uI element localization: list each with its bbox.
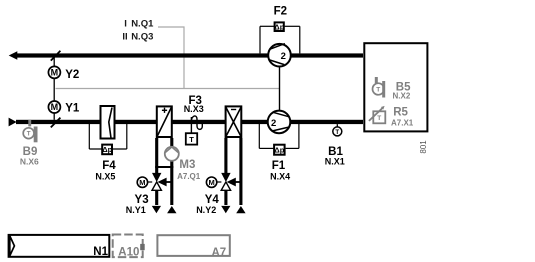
wire: cooler supply pipe [239,138,242,205]
heating coil [157,106,172,137]
actuator Y1 [48,101,60,113]
wire: damper actuator link [53,58,55,67]
svg-text:A7: A7 [211,247,226,259]
svg-text:801: 801 [419,140,428,154]
svg-text:Y4: Y4 [205,194,220,206]
svg-text:N.Y1: N.Y1 [126,205,146,215]
svg-text:N.X2: N.X2 [393,92,411,101]
wire: heater return outlet arrow [152,206,161,213]
room box [364,43,427,131]
svg-text:N.Y2: N.Y2 [196,205,216,215]
svg-text:T: T [376,87,380,94]
wire: control line from speed label to fans/dampers [158,27,184,89]
cooling coil [226,106,242,137]
svg-text:N.X6: N.X6 [20,156,39,166]
actuator Y2 [48,66,60,78]
room unit R5 [369,106,385,123]
svg-text:A7.X1: A7.X1 [391,119,414,128]
wire: horizontal control line damper to fan [56,88,280,90]
svg-text:Y2: Y2 [65,69,79,81]
svg-text:A7.Q1: A7.Q1 [177,172,201,181]
sensor B9 (outside air temp) [23,120,37,143]
wire: bottom duct left arrow [9,118,17,127]
wire: heater supply inlet arrow [167,206,176,213]
device A7 legend box [157,235,229,259]
svg-text:M: M [208,178,214,187]
svg-text:F2: F2 [274,5,287,17]
wire: cooler return pipe [224,138,227,173]
svg-text:M: M [51,102,59,112]
wire: cooler return outlet arrow [221,206,230,213]
svg-text:N.Q3: N.Q3 [131,32,153,43]
svg-text:II: II [122,32,127,43]
svg-text:Δp: Δp [274,22,284,31]
svg-text:T: T [189,135,194,144]
valve Y3 (three-way) [137,173,172,190]
svg-text:2: 2 [281,51,286,62]
wire: fan link line [279,67,281,111]
module A10 legend box [113,235,145,259]
svg-text:R5: R5 [393,107,408,119]
pump M3 [165,147,179,161]
svg-text:F1: F1 [272,160,286,172]
fan F2 pressure switch bracket [260,22,300,53]
svg-text:A10: A10 [118,246,139,258]
svg-text:N.Q1: N.Q1 [131,18,154,29]
svg-text:Y3: Y3 [135,194,149,206]
svg-text:N1: N1 [93,246,108,258]
svg-text:T: T [27,131,31,138]
svg-text:I: I [124,18,127,29]
svg-text:F4: F4 [102,160,116,172]
fan F1 pressure switch bracket [259,124,299,155]
wire: heater pipe crossbar [155,166,173,168]
wire: heater supply pipe [170,138,173,205]
svg-text:Δp: Δp [102,145,112,154]
svg-text:T: T [335,129,339,136]
damper Y1 blade [51,118,61,128]
wire: cooler supply inlet arrow [236,206,245,213]
svg-text:N.X3: N.X3 [184,104,204,114]
wire: bottom duct (supply air) [16,120,363,124]
wire: top duct (exhaust air) [17,53,363,57]
fan F1 [268,111,291,134]
sensor B1 (supply air temp) [333,124,342,136]
svg-text:N.X4: N.X4 [270,172,290,182]
filter F4 [89,106,127,154]
wire: heater return pipe [155,138,158,173]
svg-text:T: T [377,115,381,122]
controller N1 legend box [9,235,110,258]
wire: top duct left arrow [9,51,18,60]
sensor B5 (room temp) [373,77,386,98]
svg-text:M: M [139,178,145,187]
damper Y2 blade [51,51,61,61]
svg-text:Δp: Δp [274,146,284,155]
valve Y4 (three-way) [206,173,240,190]
svg-text:M: M [51,68,59,78]
svg-text:N.X5: N.X5 [95,172,115,182]
svg-text:M3: M3 [179,159,195,171]
svg-text:2: 2 [271,118,276,129]
svg-text:N.X1: N.X1 [325,156,345,166]
fan F2 [268,44,291,67]
svg-text:Y1: Y1 [65,103,80,115]
sensor F3 (frost protection capillary) [186,116,203,145]
